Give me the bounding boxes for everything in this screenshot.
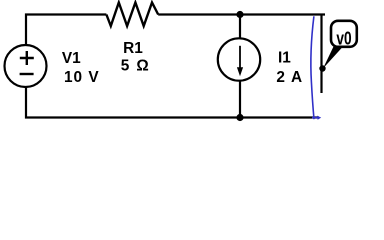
wire from I1 bottom down to bottom rail (239, 81, 241, 118)
wire from V1 bottom down to bottom-left corner and right along bottom rail (26, 87, 319, 118)
svg-text:2 A: 2 A (276, 69, 303, 86)
svg-text:v0: v0 (336, 28, 351, 48)
annotation blue arrow horizontal tail (312, 117, 318, 119)
svg-text:I1: I1 (278, 50, 291, 67)
voltage source V1 circle (5, 45, 47, 87)
svg-text:R1: R1 (123, 40, 143, 57)
wire from resistor R1 to right end of top rail (158, 13, 325, 15)
voltage source V1 plus sign (20, 51, 34, 65)
probe node dot (319, 65, 325, 71)
svg-text:10 V: 10 V (64, 69, 100, 86)
junction dot top node at I1 (236, 11, 243, 18)
current source I1 arrow head (237, 67, 243, 76)
flag v0 pointer (323, 46, 343, 69)
resistor R1 zigzag body (106, 3, 158, 27)
svg-text:5 Ω: 5 Ω (121, 58, 150, 75)
wire from V1 top up to top-left corner and right to resistor R1 (26, 15, 106, 47)
svg-text:V1: V1 (62, 50, 81, 67)
current source I1 arrow shaft (239, 46, 241, 69)
annotation blue arrow head (317, 116, 321, 120)
junction dot bottom node at I1 (236, 114, 243, 121)
annotation blue probe arrow (311, 16, 314, 119)
flag v0 rounded box (331, 21, 357, 47)
wire from top rail down to I1 (239, 15, 241, 40)
current source I1 circle (218, 38, 260, 80)
voltage source V1 minus sign (20, 73, 34, 75)
probe stem wire at right (320, 15, 322, 94)
